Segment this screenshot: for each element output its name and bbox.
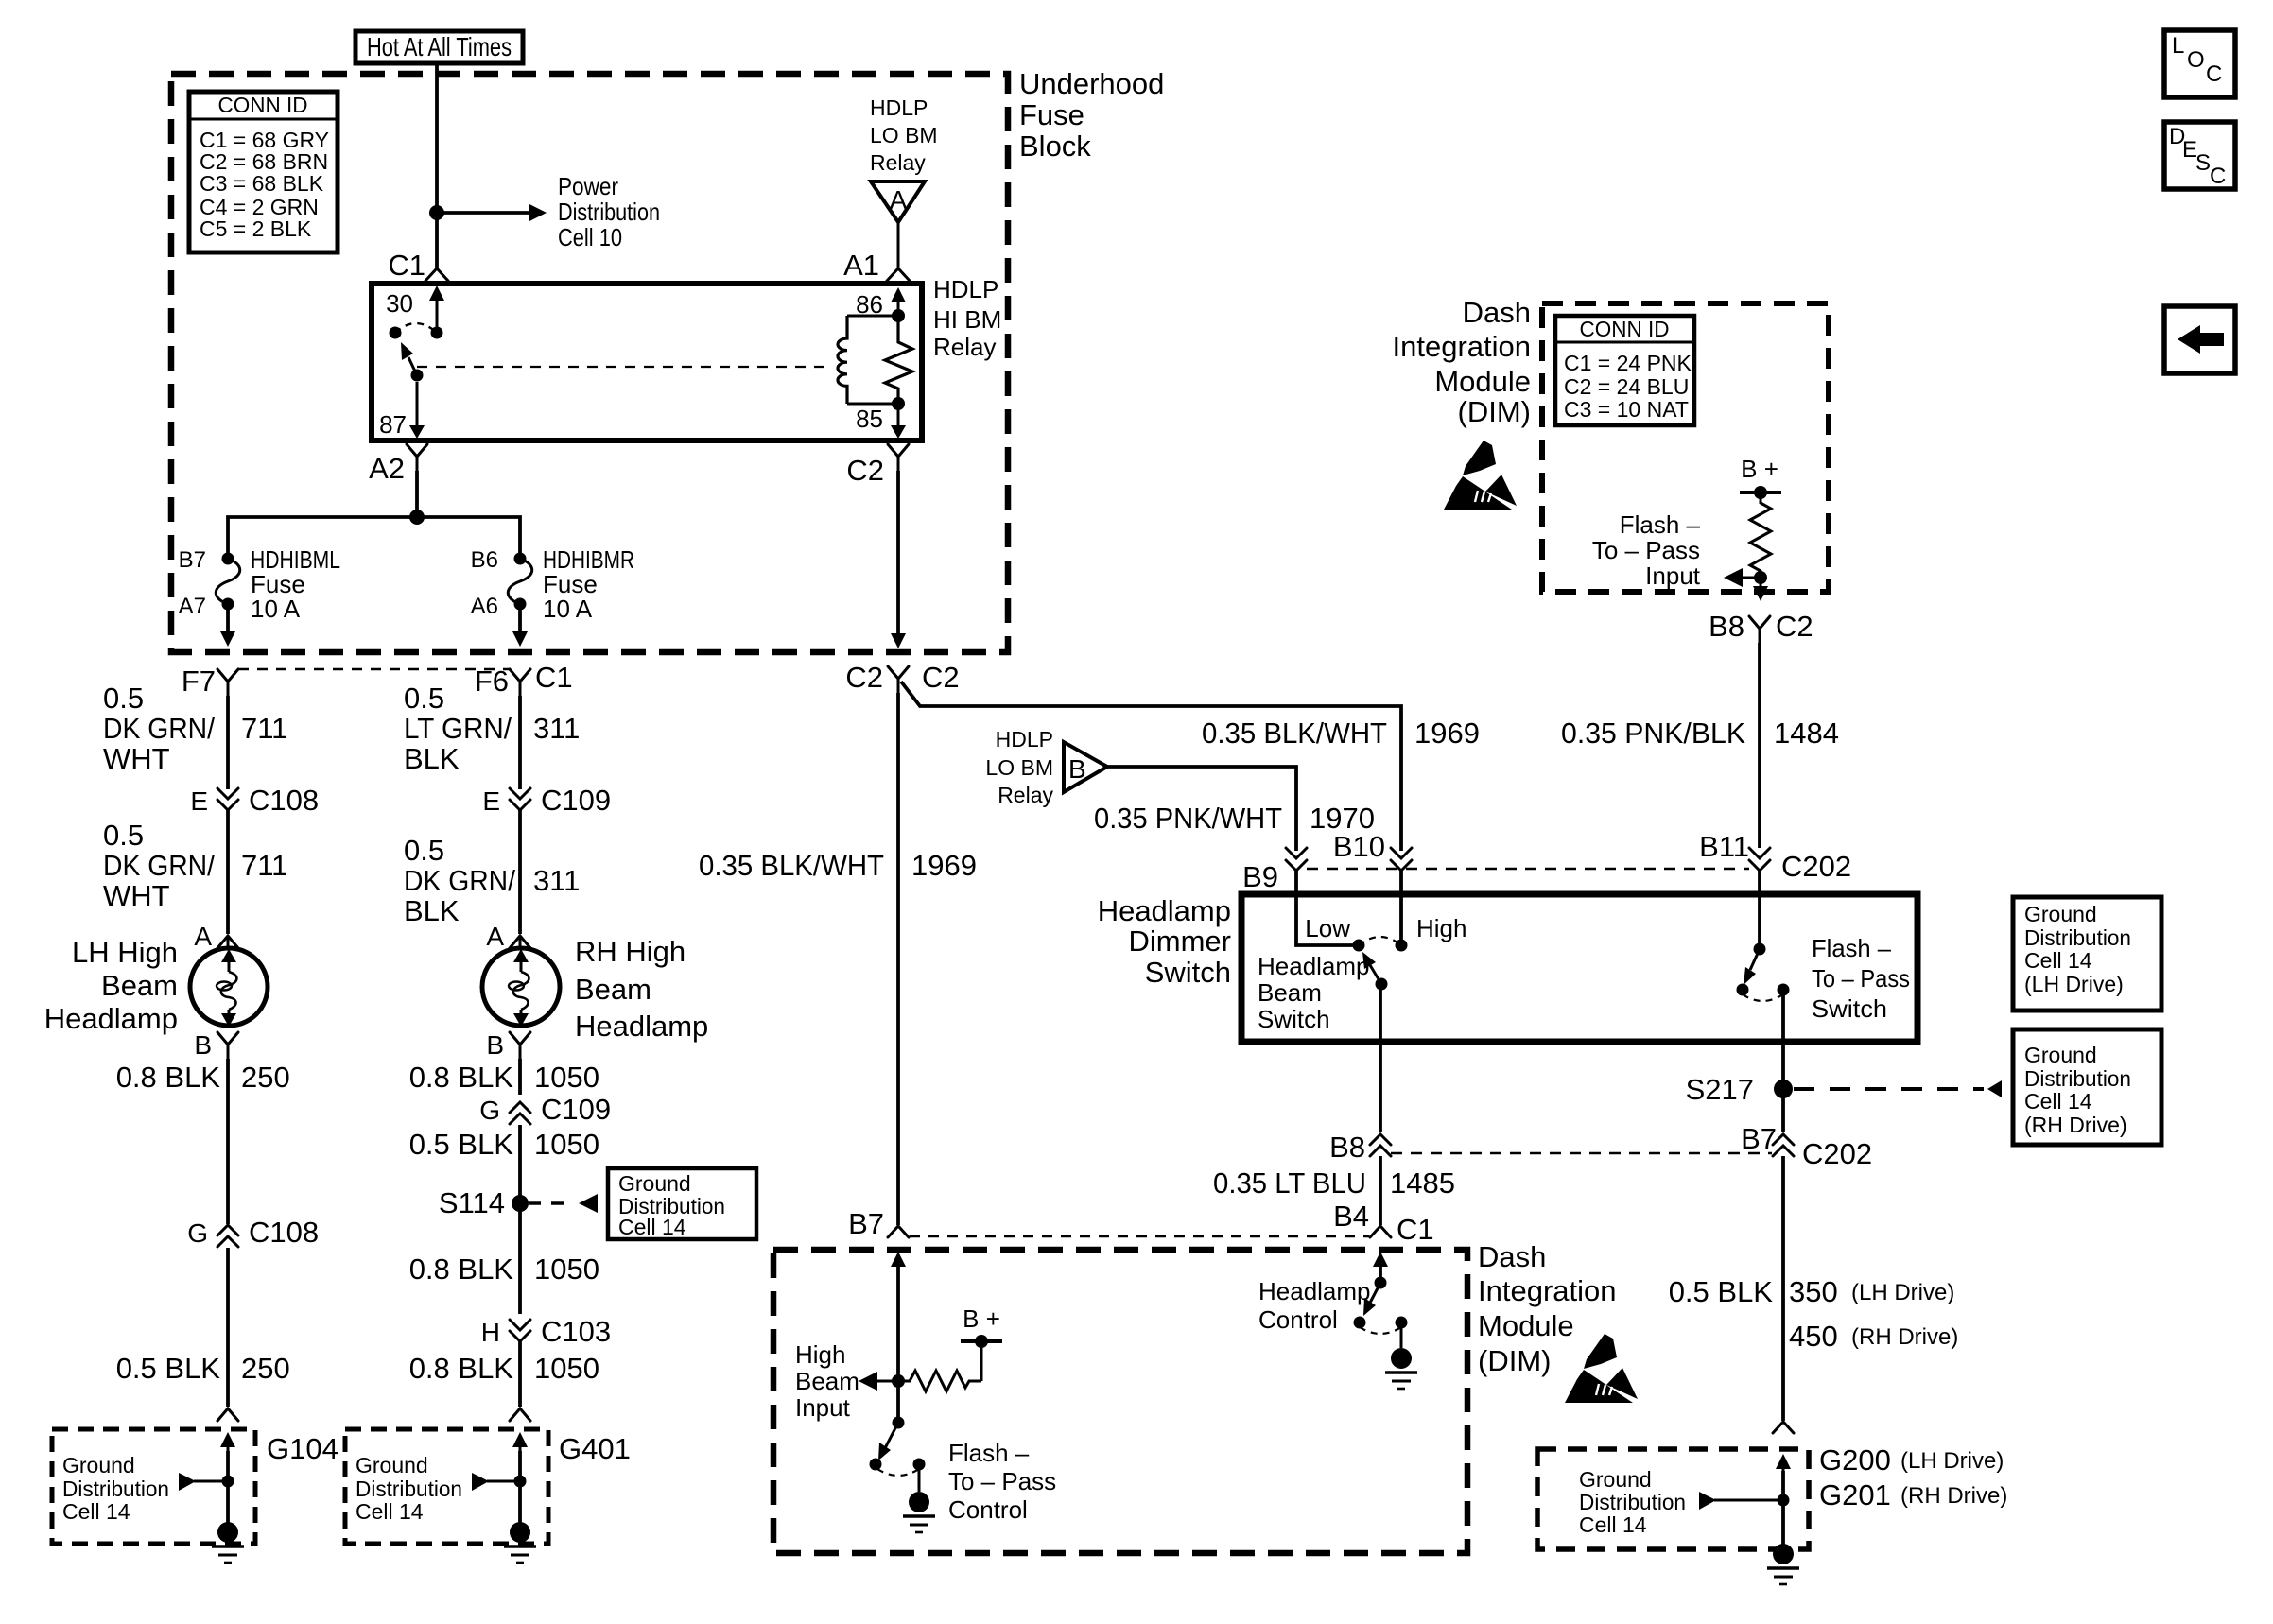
ground G200/G201 enclosure (1537, 1449, 1809, 1549)
svg-text:A1: A1 (843, 249, 879, 282)
svg-text:0.8 BLK: 0.8 BLK (116, 1061, 221, 1094)
svg-text:C108: C108 (249, 784, 319, 817)
svg-text:1484: 1484 (1774, 717, 1839, 750)
connector C2 below relay (Y) (846, 444, 909, 487)
svg-text:Dash: Dash (1478, 1240, 1546, 1273)
label 0.5 DK GRN/BLK 311 (404, 834, 580, 927)
connector C202 dashed boundary (B9-B11) (1307, 868, 1749, 871)
dash integration module bottom enclosure (773, 1250, 1467, 1553)
relay coil resistor (885, 316, 912, 404)
svg-text:DK GRN/: DK GRN/ (103, 712, 215, 745)
svg-text:G201: G201 (1819, 1478, 1891, 1512)
svg-text:Headlamp: Headlamp (1258, 1277, 1371, 1305)
connector F6 / C1 (Y) (475, 661, 573, 698)
switch travel arc low-high (1359, 937, 1401, 945)
svg-text:G104: G104 (267, 1432, 338, 1465)
node fuse branch junction (409, 510, 425, 525)
svg-text:G200: G200 (1819, 1443, 1891, 1477)
label 0.35 PNK/WHT 1970 (1094, 802, 1375, 835)
svg-text:Ground: Ground (2024, 902, 2097, 926)
connector into G104 (chevron) (217, 1408, 238, 1421)
node S114 (439, 1186, 529, 1219)
svg-text:(LH Drive): (LH Drive) (2024, 972, 2124, 996)
svg-text:C1: C1 (535, 661, 573, 694)
svg-text:Dash: Dash (1463, 296, 1531, 329)
connector pin A of LH headlamp (chevron) (194, 922, 238, 951)
svg-text:Headlamp: Headlamp (575, 1010, 708, 1043)
connector pin B of LH headlamp (Y) (194, 1030, 238, 1060)
svg-text:(RH Drive): (RH Drive) (1851, 1324, 1958, 1350)
svg-text:C2: C2 (1776, 610, 1813, 643)
svg-text:B: B (1068, 754, 1086, 784)
svg-text:C: C (2210, 164, 2226, 189)
svg-text:To – Pass: To – Pass (1592, 536, 1700, 564)
svg-text:B: B (194, 1030, 212, 1060)
label Ground Distribution Cell 14 (G104) (62, 1453, 169, 1524)
relay pin 30 (386, 285, 444, 333)
switch headlamp beam arm (1362, 952, 1388, 991)
svg-text:Headlamp: Headlamp (1258, 952, 1370, 980)
switch headlamp beam select low contact (1305, 914, 1364, 952)
connector C109 pin G (double chevron up) (479, 1093, 611, 1126)
off-page arrow high beam input (859, 1372, 898, 1391)
label Flash-To-Pass Control (948, 1439, 1056, 1524)
wire dimmer common down to B8 (1379, 984, 1382, 1132)
label 0.5 LT GRN/BLK 311 (404, 682, 580, 775)
wire fuse HDHIBML output (220, 604, 235, 647)
label 0.8 BLK 1050 (3) (409, 1352, 599, 1385)
label 0.35 LT BLU 1485 (1213, 1166, 1455, 1200)
svg-text:(RH Drive): (RH Drive) (1900, 1483, 2007, 1509)
svg-text:Flash –: Flash – (1620, 510, 1701, 539)
svg-text:RH High: RH High (575, 935, 685, 968)
svg-text:LO BM: LO BM (870, 123, 938, 147)
svg-text:Low: Low (1305, 914, 1350, 942)
label 0.35 BLK/WHT 1969 (lower) (699, 849, 977, 882)
svg-text:Cell 14: Cell 14 (2024, 948, 2092, 973)
fuse HDHIBMR 10 A (471, 545, 634, 623)
off-page arrow to ground distribution (G104) (179, 1473, 234, 1491)
svg-text:A2: A2 (369, 452, 405, 485)
connector C108 pin G (double chevron up) (187, 1216, 319, 1249)
op-amp-style triangle A HDLP LO BM Relay coil feed (870, 95, 938, 268)
svg-text:Cell 14: Cell 14 (618, 1215, 686, 1239)
svg-text:711: 711 (241, 712, 287, 745)
wire 0.35 PNK/BLK 1484 (1758, 643, 1761, 848)
callout box Ground Distribution Cell 14 (LH Drive) (2013, 897, 2161, 1011)
svg-text:0.8 BLK: 0.8 BLK (409, 1352, 514, 1385)
wire 0.35 PNK/WHT 1970 triangle B to B9 (1107, 767, 1296, 851)
label 0.35 BLK/WHT 1969 (upper) (1202, 717, 1480, 750)
switch headlamp control pivot (1375, 1277, 1387, 1289)
svg-text:311: 311 (533, 864, 580, 897)
svg-text:Headlamp: Headlamp (1098, 894, 1231, 927)
svg-text:0.5: 0.5 (404, 834, 444, 867)
svg-text:CONN ID: CONN ID (1580, 317, 1670, 341)
switch headlamp control arm (1354, 1283, 1381, 1329)
relay switch arm (401, 342, 424, 382)
svg-text:Input: Input (795, 1393, 851, 1422)
switch travel arc flash-to-pass control (877, 1469, 919, 1476)
svg-text:B +: B + (1741, 455, 1778, 483)
svg-text:1050: 1050 (534, 1352, 599, 1385)
switch headlamp beam select high contact (1396, 914, 1467, 952)
svg-text:C3 = 68 BLK: C3 = 68 BLK (200, 171, 324, 196)
svg-text:High: High (795, 1340, 845, 1369)
switch flash-to-pass pivot (1754, 943, 1766, 956)
legend box DESC (2164, 122, 2235, 189)
table CONN ID (underhood fuse block) (189, 92, 338, 252)
svg-text:WHT: WHT (103, 742, 170, 775)
label Underhood Fuse Block (1019, 67, 1164, 163)
switch travel arc flash-to-pass (1743, 994, 1783, 1001)
svg-text:0.5: 0.5 (404, 682, 444, 715)
svg-text:Cell 14: Cell 14 (62, 1499, 130, 1524)
svg-text:1969: 1969 (911, 849, 977, 882)
label 0.8 BLK 250 (116, 1061, 290, 1094)
svg-text:450: 450 (1789, 1320, 1838, 1353)
svg-text:HDLP: HDLP (870, 95, 928, 120)
label 0.5 DK GRN/WHT 711 (upper) (103, 682, 287, 775)
svg-text:C2: C2 (922, 661, 960, 694)
svg-text:Distribution: Distribution (356, 1477, 462, 1501)
wire B7 into high beam input net (891, 1252, 906, 1423)
label G200 (LH Drive) G201 (RH Drive) (1819, 1443, 2007, 1512)
svg-text:Beam: Beam (795, 1367, 859, 1395)
svg-text:(LH Drive): (LH Drive) (1900, 1448, 2004, 1474)
relay HDLP HI BM Relay box (372, 284, 922, 441)
svg-text:0.8 BLK: 0.8 BLK (409, 1061, 514, 1094)
svg-text:A: A (486, 922, 504, 951)
svg-text:Ground: Ground (618, 1171, 691, 1196)
svg-text:C103: C103 (541, 1315, 611, 1348)
connector boundary dashed line F7-F6 (238, 668, 511, 671)
wire into G200 with arrow (1776, 1454, 1791, 1545)
wire 711 lower segment (226, 810, 230, 934)
ground G104 enclosure (52, 1429, 255, 1544)
svg-text:B8: B8 (1329, 1131, 1365, 1164)
svg-text:To – Pass: To – Pass (1812, 964, 1910, 993)
switch flash-to-pass second contact (1778, 984, 1790, 996)
wire 250 lower (226, 1248, 230, 1407)
svg-text:DK GRN/: DK GRN/ (404, 864, 515, 897)
svg-text:0.35 BLK/WHT: 0.35 BLK/WHT (1202, 717, 1387, 750)
svg-text:Headlamp: Headlamp (44, 1002, 178, 1035)
svg-text:C202: C202 (1781, 850, 1851, 883)
svg-text:Cell 14: Cell 14 (356, 1499, 424, 1524)
wire branch to both fuses (228, 517, 520, 559)
label High Beam Input (795, 1340, 859, 1422)
svg-text:Cell 14: Cell 14 (2024, 1089, 2092, 1114)
lamp RH High Beam Headlamp (482, 935, 708, 1043)
svg-text:(LH Drive): (LH Drive) (1851, 1280, 1954, 1305)
label Headlamp Beam Switch (1258, 952, 1370, 1033)
svg-text:1050: 1050 (534, 1253, 599, 1286)
connector C103 pin H (double chevron down) (481, 1315, 611, 1348)
label 0.5 DK GRN/WHT 711 (lower) (103, 819, 287, 912)
lamp LH High Beam Headlamp (44, 936, 268, 1035)
label Headlamp Control (1258, 1277, 1371, 1334)
svg-text:C1: C1 (388, 249, 425, 282)
off-page arrow to ground distribution (G401) (472, 1473, 527, 1491)
svg-text:Integration: Integration (1393, 330, 1532, 363)
connector B10 (double chevron down) (1333, 830, 1412, 871)
switch headlamp control contact (1396, 1317, 1408, 1349)
svg-text:Underhood: Underhood (1019, 67, 1164, 100)
svg-text:(RH Drive): (RH Drive) (2024, 1113, 2127, 1137)
label HDLP HI BM Relay (933, 275, 1001, 361)
resistor flash-to-pass pull-up (1750, 492, 1771, 578)
relay pin 86 arrow (856, 287, 906, 319)
callout box Ground Distribution Cell 14 (S114) (608, 1168, 756, 1239)
svg-text:1969: 1969 (1414, 717, 1480, 750)
svg-text:DK GRN/: DK GRN/ (103, 849, 215, 882)
relay coil (838, 309, 905, 410)
svg-text:B10: B10 (1333, 830, 1385, 863)
connector C2 / C2 (Y with branch) (845, 661, 959, 694)
svg-text:Beam: Beam (101, 969, 178, 1002)
connector into G200 (chevron) (1773, 1422, 1794, 1433)
switch flash-to-pass control arm (870, 1423, 899, 1471)
svg-text:B +: B + (963, 1304, 1000, 1333)
svg-text:Distribution: Distribution (62, 1477, 169, 1501)
off-page dashed arrow S217 to ground distribution (1794, 1080, 2002, 1097)
label Dash Integration Module DIM (top) (1393, 296, 1532, 428)
svg-text:Beam: Beam (575, 973, 651, 1006)
svg-text:HDLP: HDLP (933, 275, 998, 303)
svg-text:0.5 BLK: 0.5 BLK (1669, 1275, 1774, 1308)
connector B11 / C202 (double chevron down) (1699, 830, 1851, 883)
svg-text:Switch: Switch (1145, 956, 1231, 989)
svg-text:C108: C108 (249, 1216, 319, 1249)
connector B4 / C1 (chevron) (1333, 1200, 1434, 1246)
svg-text:Ground: Ground (2024, 1043, 2097, 1067)
svg-text:B9: B9 (1242, 860, 1278, 893)
svg-text:E: E (482, 786, 500, 816)
svg-text:S217: S217 (1686, 1073, 1754, 1106)
ground symbol headlamp control (1385, 1348, 1417, 1389)
label 0.5 BLK 350 (LH Drive) 450 (RH Drive) (1669, 1275, 1959, 1353)
svg-text:0.5: 0.5 (103, 682, 144, 715)
svg-text:0.5: 0.5 (103, 819, 144, 852)
relay actuation dashed link (417, 366, 828, 368)
svg-text:Distribution: Distribution (558, 198, 660, 226)
relay switch contacts (390, 323, 443, 339)
svg-text:LH High: LH High (72, 936, 178, 969)
off-page arrow to ground distribution (G200) (1699, 1492, 1790, 1510)
connector B8 (double chevron up) (1329, 1131, 1391, 1164)
node B+ (DIM bottom) (961, 1304, 1002, 1381)
ground G401 enclosure (345, 1429, 548, 1544)
wire 711 upper segment (226, 696, 230, 789)
wire B+ net to B8 with arrow (1753, 578, 1768, 601)
label 0.35 PNK/BLK 1484 (1561, 717, 1839, 750)
svg-text:Control: Control (1258, 1305, 1338, 1334)
svg-text:Cell 10: Cell 10 (558, 223, 622, 251)
svg-text:B11: B11 (1699, 830, 1749, 863)
svg-text:O: O (2187, 47, 2205, 73)
label Ground Distribution Cell 14 (G401) (356, 1453, 462, 1524)
ground symbol G401 (504, 1522, 536, 1563)
svg-text:Cell 14: Cell 14 (1579, 1512, 1647, 1537)
switch flash-to-pass arm (1737, 949, 1761, 996)
off-page dashed arrow S114 to ground distribution (529, 1194, 598, 1213)
esd symbol (bottom DIM) (1565, 1334, 1638, 1403)
svg-text:Integration: Integration (1478, 1274, 1617, 1307)
svg-text:WHT: WHT (103, 879, 170, 912)
wire 0.35 BLK/WHT 1969 branch to B10 (901, 682, 1401, 851)
svg-text:1050: 1050 (534, 1128, 599, 1161)
svg-text:Module: Module (1434, 365, 1531, 398)
label 0.8 BLK 1050 (1) (409, 1061, 599, 1094)
svg-text:10 A: 10 A (251, 595, 301, 623)
svg-text:A6: A6 (471, 594, 498, 619)
svg-text:G401: G401 (559, 1432, 631, 1465)
svg-text:Power: Power (558, 172, 618, 200)
connector B8 / C2 of DIM (Y) (1709, 610, 1813, 643)
wire B9 into dimmer low contact (1296, 871, 1359, 945)
svg-text:A: A (194, 922, 212, 951)
svg-text:B6: B6 (471, 547, 498, 573)
connector pin B of RH headlamp (Y) (486, 1030, 530, 1060)
svg-text:Ground: Ground (1579, 1467, 1652, 1492)
svg-text:Module: Module (1478, 1309, 1574, 1342)
svg-text:S114: S114 (439, 1186, 505, 1219)
svg-text:BLK: BLK (404, 742, 460, 775)
svg-text:Flash –: Flash – (948, 1439, 1030, 1467)
wire into G401 with arrow (512, 1432, 528, 1524)
svg-text:C2: C2 (845, 661, 883, 694)
wire B11 into flash-to-pass contact (1758, 871, 1761, 949)
connector C202 dashed boundary (B8-B7) (1391, 1152, 1772, 1155)
svg-text:C2: C2 (846, 454, 884, 487)
connector C108 pin E (double chevron down) (190, 784, 319, 817)
node S217 (1686, 1073, 1793, 1106)
svg-text:1485: 1485 (1390, 1166, 1455, 1200)
svg-text:C1 = 24 PNK: C1 = 24 PNK (1564, 351, 1692, 375)
switch travel arc headlamp control (1360, 1327, 1401, 1334)
svg-text:(DIM): (DIM) (1458, 395, 1531, 428)
label 0.8 BLK 1050 (2) (409, 1253, 599, 1286)
wire relay 87 to fuse branch (415, 471, 419, 517)
label Flash-To-Pass Input (1592, 510, 1701, 590)
wire 1969 main down to B7 (896, 693, 900, 1225)
svg-text:(DIM): (DIM) (1478, 1344, 1551, 1377)
relay pin 87 (379, 382, 425, 439)
switch flash-to-pass control contact (913, 1459, 926, 1493)
wire S217 to G200/G201 (1781, 1156, 1785, 1421)
svg-text:B7: B7 (848, 1207, 884, 1240)
svg-text:350: 350 (1789, 1275, 1838, 1308)
svg-text:250: 250 (241, 1352, 290, 1385)
svg-text:30: 30 (386, 289, 413, 318)
svg-text:87: 87 (379, 410, 407, 439)
svg-text:LT GRN/: LT GRN/ (404, 712, 512, 745)
svg-text:HI BM: HI BM (933, 305, 1001, 334)
connector A1 (Y) (843, 249, 910, 282)
svg-text:C109: C109 (541, 784, 611, 817)
svg-text:0.35 LT BLU: 0.35 LT BLU (1213, 1166, 1366, 1200)
label Dash Integration Module DIM (bottom) (1478, 1240, 1617, 1377)
wire B4 into headlamp control with arrow (1373, 1252, 1388, 1283)
svg-text:A: A (890, 185, 908, 215)
dash integration module top enclosure (1542, 303, 1829, 592)
svg-text:0.8 BLK: 0.8 BLK (409, 1253, 514, 1286)
svg-text:High: High (1416, 914, 1466, 942)
svg-text:A7: A7 (179, 594, 206, 619)
legend box LOC (2164, 30, 2235, 97)
svg-text:H: H (481, 1318, 500, 1347)
connector A2 (Y) (369, 444, 427, 485)
svg-text:S: S (2195, 150, 2211, 176)
svg-text:HDLP: HDLP (996, 727, 1053, 752)
svg-text:L: L (2172, 33, 2184, 59)
wire into G104 with arrow (220, 1432, 235, 1524)
wire 1050 segment 2 (518, 1125, 522, 1314)
svg-text:0.35 PNK/BLK: 0.35 PNK/BLK (1561, 717, 1745, 750)
svg-text:E: E (190, 786, 208, 816)
connector C1 into fuse block (Y) (388, 249, 448, 282)
svg-text:Relay: Relay (998, 783, 1053, 807)
svg-text:711: 711 (241, 849, 287, 882)
connector F7 (Y) (182, 665, 238, 698)
wire relay 85 down to C2 exit (896, 471, 900, 635)
svg-text:Distribution: Distribution (1579, 1490, 1686, 1514)
wire 311 lower segment (518, 810, 522, 934)
svg-text:C2 = 24 BLU: C2 = 24 BLU (1564, 374, 1689, 399)
underhood fuse block enclosure (171, 74, 1008, 652)
svg-text:0.5 BLK: 0.5 BLK (409, 1128, 514, 1161)
svg-text:Distribution: Distribution (2024, 925, 2131, 950)
svg-text:Beam: Beam (1258, 978, 1322, 1007)
svg-text:Relay: Relay (870, 150, 926, 175)
svg-text:BLK: BLK (404, 894, 460, 927)
svg-text:Flash –: Flash – (1812, 934, 1892, 962)
svg-text:311: 311 (533, 712, 580, 745)
svg-text:0.5 BLK: 0.5 BLK (116, 1352, 221, 1385)
svg-text:B: B (486, 1030, 504, 1060)
svg-text:0.35 BLK/WHT: 0.35 BLK/WHT (699, 849, 884, 882)
wire 1050 segment 3 (518, 1341, 522, 1407)
label Flash-To-Pass Switch (1812, 934, 1910, 1023)
svg-text:B7: B7 (1741, 1122, 1777, 1155)
svg-text:Control: Control (948, 1495, 1028, 1524)
label 0.5 BLK 1050 (409, 1128, 599, 1161)
legend box back arrow (2164, 306, 2235, 373)
node Hot At All Times (356, 31, 523, 63)
svg-text:B8: B8 (1709, 610, 1744, 643)
svg-text:LO BM: LO BM (985, 755, 1053, 780)
resistor high beam input pull-up (898, 1371, 981, 1391)
svg-text:B4: B4 (1333, 1200, 1369, 1233)
svg-text:F6: F6 (475, 665, 509, 698)
switch flash-to-pass control pivot (893, 1417, 905, 1429)
wire 311 upper segment (518, 696, 522, 789)
node B+ (DIM top) (1740, 455, 1781, 499)
svg-text:Relay: Relay (933, 333, 996, 361)
svg-text:Distribution: Distribution (2024, 1066, 2131, 1091)
wire flash-to-pass to S217 (1781, 990, 1785, 1132)
connector B7 of DIM (chevron) (848, 1207, 909, 1240)
svg-text:C202: C202 (1802, 1137, 1872, 1170)
connector B7 / C202 (double chevron up) (1741, 1122, 1872, 1170)
off-page arrow flash-to-pass input (1724, 568, 1767, 587)
node high beam input junction (892, 1374, 905, 1388)
svg-text:Ground: Ground (356, 1453, 428, 1477)
wire B10 into dimmer high contact (1399, 871, 1403, 945)
label Headlamp Dimmer Switch (1098, 894, 1231, 989)
connector pin A of RH headlamp (chevron) (486, 922, 530, 951)
